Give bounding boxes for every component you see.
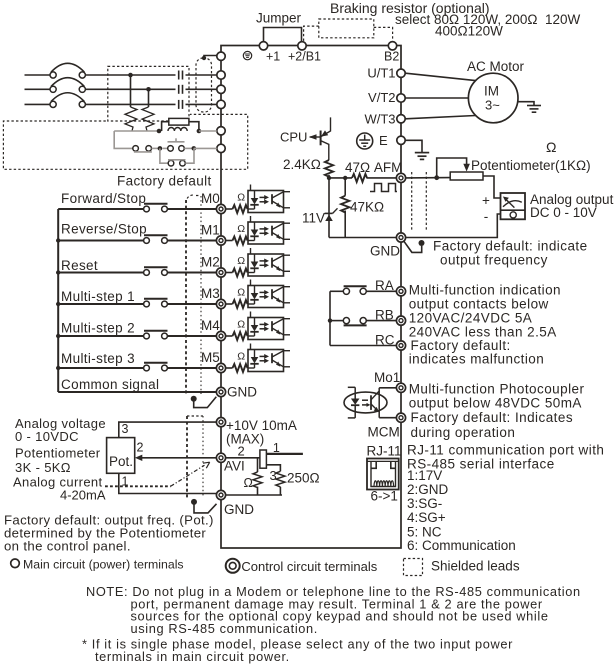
terminal W/T3 [397,115,405,123]
svg-text:output contacts below: output contacts below [409,297,549,312]
terminal B2 [388,42,396,50]
optocoupler ISO3 [248,248,290,276]
terminal M1 [216,236,225,245]
switch Multi-step 2 [144,331,168,339]
terminal +10V [216,418,225,427]
node wiper branch [434,175,439,180]
auxiliary contact parallel [160,148,194,166]
resistor 2.4K [325,160,333,177]
breaker pole 1 [50,63,85,78]
phase line S [25,88,218,90]
terminal Mo1 [396,383,405,392]
svg-text:4:SG+: 4:SG+ [407,510,446,525]
wire U/T1 to motor [405,73,475,80]
wire bottom to GND [329,237,397,239]
wire RC [330,345,397,347]
resistor 47ohm [352,174,367,182]
svg-text:-: - [484,209,489,224]
earth symbol near +1 [243,51,251,59]
svg-text:GND: GND [227,385,257,400]
wire 47K down [344,211,346,238]
breaker pole 3 [50,93,85,108]
node contact left [158,146,163,151]
dashed channel analog [187,416,203,498]
svg-text:on the control panel.: on the control panel. [4,539,131,554]
input terminal contact [217,144,225,152]
dashed channel fine [200,196,202,394]
svg-text:Factory default: indicate: Factory default: indicate [433,239,588,254]
svg-text:terminals in main circuit powe: terminals in main circuit power. [95,649,290,664]
tap resistor input [253,458,262,495]
wire coil to terminal [199,130,217,132]
wire row M4 [58,335,216,337]
RJ-11 connector [367,459,399,490]
node relay common [328,318,332,322]
terminal RC [396,341,405,350]
pushbutton ON [163,138,194,151]
svg-text:47Ω AFM: 47Ω AFM [345,160,402,175]
wire M3 to resistor [226,303,233,305]
svg-text:Ω: Ω [546,139,556,155]
svg-text:Factory default: Factory default [117,174,212,189]
node row M4 [56,334,60,338]
photocoupler Mo1 output [344,387,387,418]
capacitor C1 [179,71,183,80]
svg-text:3: 3 [270,468,277,483]
legend main circuit symbol [11,559,20,568]
node coil left [157,129,162,134]
svg-text:Jumper: Jumper [256,11,302,26]
resistor M5 [233,364,248,372]
svg-text:Common signal: Common signal [61,377,159,392]
svg-text:Forward/Stop: Forward/Stop [61,191,146,206]
svg-text:Multi-step 3: Multi-step 3 [61,351,135,366]
wire Mo1 [379,387,396,389]
dotted current input wire [105,462,210,486]
transistor Q1 CPU output [309,117,331,160]
wire row M0 [58,208,216,210]
wire node to terminal [194,147,217,149]
analog output meter [501,193,526,219]
wire common signal [58,391,216,393]
dash-dot enclosure box [3,114,247,169]
svg-text:Ω: Ω [237,223,245,235]
wire MCM [379,417,396,419]
dashed channel bold [185,200,187,394]
phase line R [25,74,218,76]
terminal GND analog [396,233,405,242]
svg-text:CPU: CPU [280,130,307,145]
svg-text:Reset: Reset [61,258,98,273]
wire row M3 [58,303,216,305]
input terminal coil [217,127,225,135]
wire row M2 [58,272,216,274]
switch Reverse/Stop [144,235,168,243]
wire row M1 [58,240,216,242]
svg-text:+: + [482,193,490,208]
gray wire down left [114,131,132,148]
svg-text:Ω: Ω [244,476,253,490]
svg-text:0 - 10VDC: 0 - 10VDC [15,429,79,444]
wire node R down [130,75,132,107]
svg-text:MCM: MCM [368,425,400,440]
svg-text:6: Communication: 6: Communication [407,538,516,553]
svg-text:Mo1: Mo1 [374,370,400,385]
optocoupler ISO5 [248,312,290,340]
svg-text:Ω: Ω [237,192,245,204]
breaker pole 2 [50,78,85,93]
legend shielded leads symbol [404,559,423,576]
svg-text:M2: M2 [201,255,220,270]
phase line T [25,103,218,105]
potentiometer Pot. box [107,438,135,474]
wire relay common [329,291,331,345]
wire GND to meter [406,214,501,238]
wire M2 to resistor [226,272,233,274]
svg-text:Multi-function Photocoupler: Multi-function Photocoupler [409,382,585,397]
svg-text:3: 3 [122,422,129,436]
svg-text:1:17V: 1:17V [407,468,442,483]
node row M5 [56,366,60,370]
svg-text:Control circuit terminals: Control circuit terminals [241,559,377,574]
svg-text:GND: GND [370,244,400,259]
svg-text:M4: M4 [201,318,220,333]
svg-text:indicates malfunction: indicates malfunction [409,352,545,367]
trimmer resistor AVI [226,450,303,471]
capacitor C3 [179,100,183,109]
node row M3 [56,302,60,306]
node on line R [128,73,133,78]
optocoupler ISO6 [248,344,290,372]
ground at motor [527,106,541,113]
svg-text:using RS-485 communication.: using RS-485 communication. [131,621,318,636]
svg-text:output below 48VDC 50mA: output below 48VDC 50mA [409,396,582,411]
wire motor to ground [518,102,534,106]
svg-text:4-20mA: 4-20mA [60,488,106,503]
wire jumper bracket [264,28,302,43]
shielded channel at AFM [412,172,427,230]
svg-text:400Ω120W: 400Ω120W [435,24,503,39]
resistor 47K [341,196,349,213]
svg-text:3~: 3~ [485,98,500,113]
resistor M2 [233,269,248,277]
svg-text:Pot.: Pot. [109,454,133,469]
svg-text:47KΩ: 47KΩ [350,200,384,215]
svg-text:output frequency: output frequency [440,253,548,268]
wire AFM to pot [406,177,451,179]
wire M0 to resistor [226,208,233,210]
svg-text:W/T3: W/T3 [364,112,395,127]
svg-text:Multi-step 1: Multi-step 1 [61,289,135,304]
wire node S down [148,89,150,107]
wire GND2 to resistors [226,494,282,496]
wire pot pin3 to +10V [119,422,217,438]
terminal MCM [396,413,405,422]
svg-text:M5: M5 [201,350,220,365]
relay contact RB [330,318,397,326]
wire E to ground [405,140,422,152]
svg-text:Factory default: Indicates: Factory default: Indicates [411,410,574,425]
node row M1 [56,238,60,242]
node AFM wire [327,176,331,180]
wire branch down [344,178,346,196]
svg-text:2:GND: 2:GND [407,482,449,497]
terminal E [397,136,405,144]
svg-text:11V: 11V [302,211,325,226]
MAIN DRIVE BOX [221,46,401,549]
factory default node at GND analog [404,240,425,252]
node coil right [197,129,202,134]
pulse waveform symbol [370,184,397,192]
switch Multi-step 3 [144,363,168,371]
svg-text:M1: M1 [201,223,220,238]
wire AVI to pot pin2 with arrow [135,455,217,461]
left bus [57,209,59,392]
terminal M4 [216,331,225,340]
terminal U/T1 [397,69,405,77]
svg-text:GND: GND [224,502,254,517]
terminal M2 [216,268,225,277]
svg-text:+2/B1: +2/B1 [288,50,321,64]
svg-text:IM: IM [484,84,499,99]
svg-text:Ω: Ω [237,351,245,363]
wire pot pin1 to GND [119,473,217,494]
terminal +1 [259,42,267,50]
gray wire varistor bottoms [114,130,159,132]
wire V/T2 to motor [405,97,468,99]
resistor M1 [233,237,248,245]
svg-text:3:SG-: 3:SG- [407,496,442,511]
node on line S [146,87,151,92]
svg-text:6->1: 6->1 [371,489,398,504]
svg-text:2.4KΩ: 2.4KΩ [283,157,321,172]
capacitor C2 [179,85,183,94]
svg-text:1: 1 [273,441,280,455]
switch Reset [144,267,168,275]
terminal AFM [396,173,405,182]
svg-text:M0: M0 [201,191,220,206]
AC motor IM [468,73,518,123]
braking resistor RB (dotted optional) [304,19,393,41]
terminal GND analog2 [216,490,225,499]
svg-text:Potentiometer(1KΩ): Potentiometer(1KΩ) [471,158,591,173]
wire row M5 [58,367,216,369]
varistor network crossing zigzags [125,107,154,131]
terminal GND digital [216,387,225,396]
svg-text:+1: +1 [266,50,280,64]
resistor M0 [233,205,248,213]
wire M4 to resistor [226,335,233,337]
wire 47ohm to AFM [367,177,397,179]
svg-text:AVI: AVI [224,459,245,474]
svg-text:Multi-function indication: Multi-function indication [409,283,561,298]
switch Multi-step 1 [144,299,168,307]
input terminal S [217,85,225,93]
potentiometer 1K box [450,172,483,180]
svg-text:(MAX): (MAX) [226,432,264,447]
zener 11V [325,208,338,221]
svg-text:Main circuit (power) terminals: Main circuit (power) terminals [23,557,184,571]
terminal M3 [216,299,225,308]
input terminal T [217,100,225,108]
svg-text:2: 2 [238,444,245,459]
terminal +2/B1 [298,42,306,50]
svg-text:250Ω: 250Ω [287,470,320,485]
svg-text:3K - 5KΩ: 3K - 5KΩ [15,460,71,475]
node 47K branch [343,176,347,180]
ground at E [415,153,429,160]
resistor RS surge [162,118,199,131]
dashed box NFB [108,66,189,121]
svg-text:Ω: Ω [237,287,245,299]
dashed arc to M0 [186,195,201,203]
terminal M5 [216,363,225,372]
svg-text:DC 0 - 10V: DC 0 - 10V [530,205,597,220]
svg-text:Potentiometer: Potentiometer [15,446,101,461]
legend control circuit symbol [226,559,240,573]
factory default node digital [191,396,217,408]
wire M1 to resistor [226,240,233,242]
svg-text:Reverse/Stop: Reverse/Stop [61,222,147,237]
optocoupler ISO1 [248,185,290,213]
wire emitter down [328,175,330,238]
node row M2 [56,270,60,274]
svg-text:Multi-step 2: Multi-step 2 [61,321,135,336]
svg-text:Shielded leads: Shielded leads [431,559,520,574]
svg-text:RJ-11: RJ-11 [367,444,402,459]
svg-text:during operation: during operation [411,425,516,440]
terminal RA [396,287,405,296]
svg-text:RJ-11 communication port with: RJ-11 communication port with [407,443,604,458]
switch Forward/Stop [144,204,168,212]
svg-text:2: 2 [137,441,144,455]
inductor coil L1 [168,128,187,131]
earth symbol circled at E [357,133,373,149]
resistor 250ohm [276,471,285,495]
dotted shielded leads at input [196,58,212,112]
resistor M4 [233,332,248,340]
wire to 47ohm [329,177,352,179]
relay contact RA [330,286,397,294]
optocoupler ISO2 [248,216,290,244]
terminal AVI [216,453,225,462]
terminal V/T2 [397,94,405,102]
input terminal spare [217,52,225,60]
factory default node analog [191,499,217,513]
svg-text:U/T1: U/T1 [367,66,395,81]
optocoupler ISO4 [248,280,290,308]
svg-text:M3: M3 [201,286,220,301]
svg-text:AC Motor: AC Motor [467,59,525,74]
terminal RB [396,316,405,325]
wire pot to meter [483,176,501,198]
wiper wire with arrow [437,158,470,178]
svg-text:B2: B2 [384,50,399,64]
svg-text:Ω: Ω [237,255,245,267]
node contact right [192,146,197,151]
input terminal R [217,71,225,79]
wire to node [152,147,160,149]
svg-text:V/T2: V/T2 [368,90,395,105]
wire spare terminal shield tap [202,56,217,61]
svg-text:Ω: Ω [237,319,245,331]
contact OFF o1o [133,146,152,152]
svg-text:E: E [379,133,388,148]
wire M5 to resistor [226,367,233,369]
terminal M0 [216,204,225,213]
wire W/T3 to motor [405,116,475,119]
svg-text:120VAC/24VDC 5A: 120VAC/24VDC 5A [409,311,533,326]
resistor M3 [233,300,248,308]
